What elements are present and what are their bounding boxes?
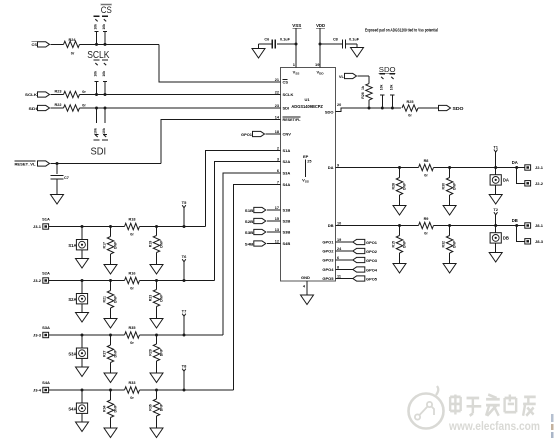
- svg-text:S4A: S4A: [42, 380, 50, 385]
- svg-text:S2A: S2A: [42, 271, 50, 276]
- svg-text:SDI: SDI: [91, 146, 107, 157]
- svg-text:GPO5: GPO5: [322, 276, 334, 281]
- svg-text:DA: DA: [512, 160, 518, 165]
- svg-text:S3B: S3B: [283, 230, 291, 235]
- svg-text:R28: R28: [391, 183, 395, 189]
- svg-text:R35: R35: [129, 326, 136, 330]
- svg-text:J3-2: J3-2: [33, 278, 42, 283]
- svg-text:0r: 0r: [82, 90, 86, 94]
- svg-text:VL: VL: [339, 74, 345, 79]
- svg-text:J2-1: J2-1: [535, 165, 544, 170]
- svg-text:17: 17: [275, 206, 279, 210]
- svg-text:S3A: S3A: [283, 171, 291, 176]
- svg-text:J8-3: J8-3: [535, 239, 544, 244]
- svg-text:0.1uF: 0.1uF: [349, 38, 360, 42]
- svg-text:1k: 1k: [361, 86, 365, 90]
- svg-text:19: 19: [337, 238, 341, 242]
- svg-text:S1B: S1B: [283, 208, 291, 213]
- svg-text:10k: 10k: [94, 24, 98, 30]
- svg-text:T7: T7: [182, 309, 187, 314]
- svg-text:SCLK: SCLK: [87, 50, 109, 61]
- svg-text:13: 13: [275, 228, 279, 232]
- svg-text:10k: 10k: [389, 84, 393, 90]
- svg-text:J3-1: J3-1: [33, 224, 42, 229]
- svg-text:T8: T8: [182, 364, 187, 369]
- svg-text:18: 18: [275, 130, 279, 134]
- svg-text:R21: R21: [102, 296, 106, 302]
- svg-text:T6: T6: [182, 254, 187, 259]
- svg-text:10k: 10k: [102, 24, 106, 30]
- svg-text:C8: C8: [333, 38, 338, 42]
- svg-text:J2-2: J2-2: [535, 181, 544, 186]
- svg-text:T1: T1: [493, 144, 498, 149]
- svg-text:23: 23: [275, 104, 279, 108]
- svg-text:DNP: DNP: [113, 241, 117, 249]
- svg-text:SDI: SDI: [29, 106, 38, 111]
- svg-text:S4A: S4A: [68, 406, 76, 411]
- svg-text:11: 11: [337, 274, 341, 278]
- svg-text:S2A: S2A: [283, 159, 291, 164]
- svg-text:15: 15: [275, 217, 279, 221]
- svg-text:R29: R29: [148, 349, 152, 355]
- svg-text:T2: T2: [493, 207, 498, 212]
- svg-text:J8-1: J8-1: [535, 223, 544, 228]
- svg-text:VDD: VDD: [316, 70, 324, 76]
- svg-text:CS: CS: [283, 80, 289, 85]
- svg-text:GND: GND: [301, 275, 310, 280]
- svg-text:R24: R24: [69, 38, 77, 42]
- svg-text:DNP: DNP: [452, 182, 456, 190]
- svg-text:DB: DB: [503, 236, 509, 241]
- svg-text:GPO2: GPO2: [366, 249, 378, 254]
- svg-text:R23: R23: [55, 90, 62, 94]
- svg-text:R25: R25: [407, 100, 414, 104]
- svg-text:R27: R27: [102, 350, 106, 356]
- svg-text:19: 19: [315, 62, 320, 67]
- svg-text:10k: 10k: [94, 128, 98, 134]
- svg-text:EP: EP: [303, 154, 309, 159]
- svg-text:R15: R15: [391, 241, 395, 247]
- svg-text:www.elecfans.com: www.elecfans.com: [448, 421, 540, 433]
- svg-text:GPO1: GPO1: [322, 240, 334, 245]
- svg-text:RESET/FL: RESET/FL: [283, 117, 302, 122]
- svg-text:VSS: VSS: [302, 178, 309, 184]
- svg-text:SDO: SDO: [453, 106, 465, 111]
- svg-text:VSS: VSS: [292, 23, 301, 28]
- svg-text:T5: T5: [182, 200, 187, 205]
- svg-text:S3A: S3A: [68, 351, 76, 356]
- svg-text:0.1uF: 0.1uF: [280, 38, 291, 42]
- svg-text:10k: 10k: [102, 128, 106, 134]
- svg-text:VSS: VSS: [293, 70, 300, 76]
- svg-text:R34: R34: [102, 405, 106, 411]
- svg-text:S2A: S2A: [68, 297, 76, 302]
- svg-text:R19: R19: [148, 241, 152, 247]
- svg-text:S3A: S3A: [42, 325, 50, 330]
- svg-text:0r: 0r: [130, 396, 134, 400]
- svg-text:SCLK: SCLK: [25, 92, 37, 97]
- svg-text:S3B: S3B: [245, 230, 254, 235]
- svg-text:C7: C7: [64, 176, 69, 180]
- svg-text:R23: R23: [148, 295, 152, 301]
- svg-text:R18: R18: [129, 217, 136, 221]
- svg-text:DNP: DNP: [402, 182, 406, 190]
- svg-text:R26: R26: [361, 92, 365, 98]
- svg-text:R36: R36: [148, 404, 152, 410]
- svg-text:R22: R22: [55, 103, 62, 107]
- svg-text:25: 25: [307, 160, 311, 164]
- svg-text:9: 9: [337, 163, 339, 167]
- svg-text:0r: 0r: [130, 232, 134, 236]
- svg-text:GPO3: GPO3: [322, 258, 334, 263]
- svg-text:10: 10: [337, 221, 341, 225]
- svg-text:DNP: DNP: [452, 240, 456, 248]
- svg-text:12: 12: [275, 239, 279, 243]
- svg-text:8: 8: [337, 265, 339, 269]
- svg-text:DNP: DNP: [159, 403, 163, 411]
- svg-text:R17: R17: [102, 242, 106, 248]
- svg-text:U1: U1: [304, 97, 310, 102]
- svg-text:S1A: S1A: [68, 243, 76, 248]
- svg-text:0r: 0r: [130, 286, 134, 290]
- svg-text:J3-4: J3-4: [33, 388, 42, 393]
- svg-text:GPO1: GPO1: [366, 240, 378, 245]
- svg-text:SDI: SDI: [283, 106, 290, 111]
- svg-text:DNP: DNP: [113, 349, 117, 357]
- svg-text:R16: R16: [129, 271, 136, 275]
- svg-text:S4A: S4A: [283, 182, 291, 187]
- svg-text:RESET_VL: RESET_VL: [15, 162, 37, 167]
- svg-text:21: 21: [275, 78, 279, 82]
- svg-text:DA: DA: [328, 165, 334, 170]
- svg-text:C6: C6: [264, 38, 269, 42]
- svg-text:S1A: S1A: [283, 148, 291, 153]
- svg-text:DNP: DNP: [113, 295, 117, 303]
- svg-text:GPO4: GPO4: [366, 267, 378, 272]
- svg-text:DA: DA: [503, 178, 509, 183]
- svg-text:GPO2: GPO2: [322, 249, 334, 254]
- svg-text:S1A: S1A: [42, 217, 50, 222]
- svg-text:DB: DB: [512, 218, 518, 223]
- svg-text:0r: 0r: [408, 114, 412, 118]
- svg-text:DNP: DNP: [159, 348, 163, 356]
- svg-text:DNP: DNP: [402, 240, 406, 248]
- svg-text:6: 6: [337, 256, 339, 260]
- svg-text:GPO5: GPO5: [366, 276, 378, 281]
- svg-text:0r: 0r: [71, 52, 75, 56]
- svg-text:S2B: S2B: [245, 219, 254, 224]
- svg-text:CNV: CNV: [283, 132, 292, 137]
- svg-text:CS: CS: [101, 5, 112, 16]
- svg-text:20: 20: [337, 103, 341, 107]
- svg-text:7: 7: [277, 180, 279, 184]
- svg-text:GPO4: GPO4: [322, 267, 334, 272]
- svg-text:S1B: S1B: [245, 208, 254, 213]
- svg-text:DNP: DNP: [159, 240, 163, 248]
- svg-text:0r: 0r: [130, 341, 134, 345]
- svg-text:0r: 0r: [424, 231, 428, 235]
- svg-text:GPO1: GPO1: [241, 132, 253, 137]
- svg-text:ADGS1409BCPZ: ADGS1409BCPZ: [291, 104, 323, 109]
- svg-text:GPO3: GPO3: [366, 258, 378, 263]
- svg-text:CS: CS: [32, 42, 38, 47]
- svg-text:Exposed pad on ADGS1209 tied t: Exposed pad on ADGS1209 tied to Vss pote…: [365, 28, 438, 33]
- svg-text:SDO: SDO: [379, 65, 396, 74]
- svg-text:0r: 0r: [424, 173, 428, 177]
- svg-text:R32: R32: [441, 241, 445, 247]
- svg-text:R8: R8: [424, 159, 429, 163]
- svg-text:2: 2: [277, 146, 279, 150]
- svg-text:VDD: VDD: [316, 23, 326, 28]
- svg-text:DB: DB: [328, 223, 334, 228]
- svg-text:R33: R33: [129, 381, 136, 385]
- svg-text:10k: 10k: [94, 71, 98, 77]
- svg-text:R30: R30: [441, 183, 445, 189]
- svg-text:22: 22: [275, 90, 279, 94]
- svg-text:R9: R9: [424, 217, 429, 221]
- svg-text:3: 3: [277, 157, 279, 161]
- svg-text:DNP: DNP: [159, 294, 163, 302]
- svg-text:DNP: DNP: [113, 404, 117, 412]
- svg-text:SCLK: SCLK: [283, 92, 294, 97]
- svg-text:J3-3: J3-3: [33, 333, 42, 338]
- svg-text:0r: 0r: [82, 104, 86, 108]
- svg-text:10k: 10k: [379, 84, 383, 90]
- svg-text:10k: 10k: [102, 71, 106, 77]
- svg-text:S4B: S4B: [283, 241, 291, 246]
- svg-text:S2B: S2B: [283, 219, 291, 224]
- svg-text:SDO: SDO: [325, 110, 334, 115]
- svg-text:6: 6: [277, 169, 279, 173]
- svg-text:S4B: S4B: [245, 241, 254, 246]
